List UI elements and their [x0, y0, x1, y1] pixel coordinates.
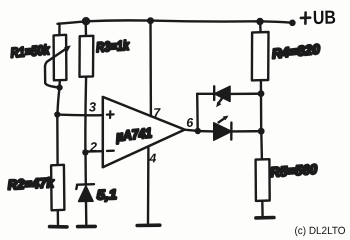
resistor R5 — [256, 159, 270, 201]
zener diode D1 — [76, 184, 94, 201]
resistor R2 — [51, 165, 64, 211]
op-amp U1 uA741 — [103, 97, 185, 167]
wire R2 to ground — [57, 210, 60, 225]
wire pin 7 supply — [149, 21, 152, 116]
resistor R1 — [54, 35, 67, 81]
wire D2 to node D — [230, 92, 261, 95]
wire wiper node to node A — [57, 88, 59, 115]
node C — [258, 128, 265, 135]
node rail-R3 junction — [82, 17, 90, 25]
svg-text:7: 7 — [153, 106, 161, 120]
wire node D to node C — [260, 94, 263, 131]
label +UB — [301, 13, 310, 24]
led D3 lower — [214, 116, 232, 141]
wire R3 top — [84, 23, 87, 36]
label plus input — [107, 111, 114, 118]
wire zener to ground — [85, 201, 88, 224]
wire R1 wiper arrow — [47, 47, 68, 61]
svg-text:2: 2 — [89, 139, 99, 154]
svg-text:6: 6 — [186, 116, 195, 130]
resistor R4 — [252, 32, 269, 80]
ground zener — [78, 225, 96, 229]
svg-text:R4=820: R4=820 — [271, 41, 321, 61]
wire D3 to node C — [232, 130, 262, 133]
wire node B to pin 2 — [86, 150, 103, 153]
svg-text:UB: UB — [313, 8, 336, 29]
wire R1 wiper loop — [45, 62, 59, 88]
ground pin 4 — [137, 223, 160, 227]
wire output branch up — [196, 94, 199, 131]
wire R4 to node D — [260, 80, 263, 93]
svg-text:5,1: 5,1 — [97, 187, 118, 203]
wire node A to pin 3 — [57, 113, 103, 116]
wire up branch to led D2 — [197, 93, 214, 95]
node R1 wiper junction — [57, 85, 63, 91]
node rail-pin7 junction — [147, 17, 154, 24]
wire node A to R2 — [56, 115, 59, 166]
terminal +UB — [289, 20, 296, 27]
wire output to led D3 — [198, 130, 214, 133]
label minus input — [107, 149, 114, 152]
wire top supply rail — [58, 20, 292, 23]
svg-text:R3=1k: R3=1k — [96, 38, 131, 55]
wire R1 top — [58, 24, 60, 36]
svg-text:(c) DL2LTO: (c) DL2LTO — [294, 225, 345, 237]
wire R1 bottom to wiper node — [58, 80, 61, 87]
node A noninverting junction — [54, 111, 60, 117]
wire pin 4 to ground — [147, 147, 150, 223]
led D2 upper — [214, 86, 230, 107]
node D — [258, 90, 265, 97]
wire R5 to ground — [261, 201, 264, 217]
wire node C to R5 — [260, 131, 263, 159]
svg-text:R1=50k: R1=50k — [10, 42, 51, 60]
svg-text:R2=47k: R2=47k — [7, 175, 55, 192]
svg-text:R5=560: R5=560 — [270, 162, 318, 180]
wire R3 to node B — [84, 77, 87, 152]
svg-text:3: 3 — [89, 99, 98, 114]
ground R5 — [256, 216, 274, 220]
resistor R3 — [80, 36, 94, 77]
wire R4 top — [259, 22, 262, 33]
wire pin 6 output — [185, 130, 198, 131]
ground R2 — [50, 225, 67, 229]
node output junction — [195, 128, 201, 134]
node B inverting junction — [82, 149, 88, 155]
wire node B to zener — [84, 152, 87, 183]
node rail-R4 junction — [256, 18, 263, 25]
